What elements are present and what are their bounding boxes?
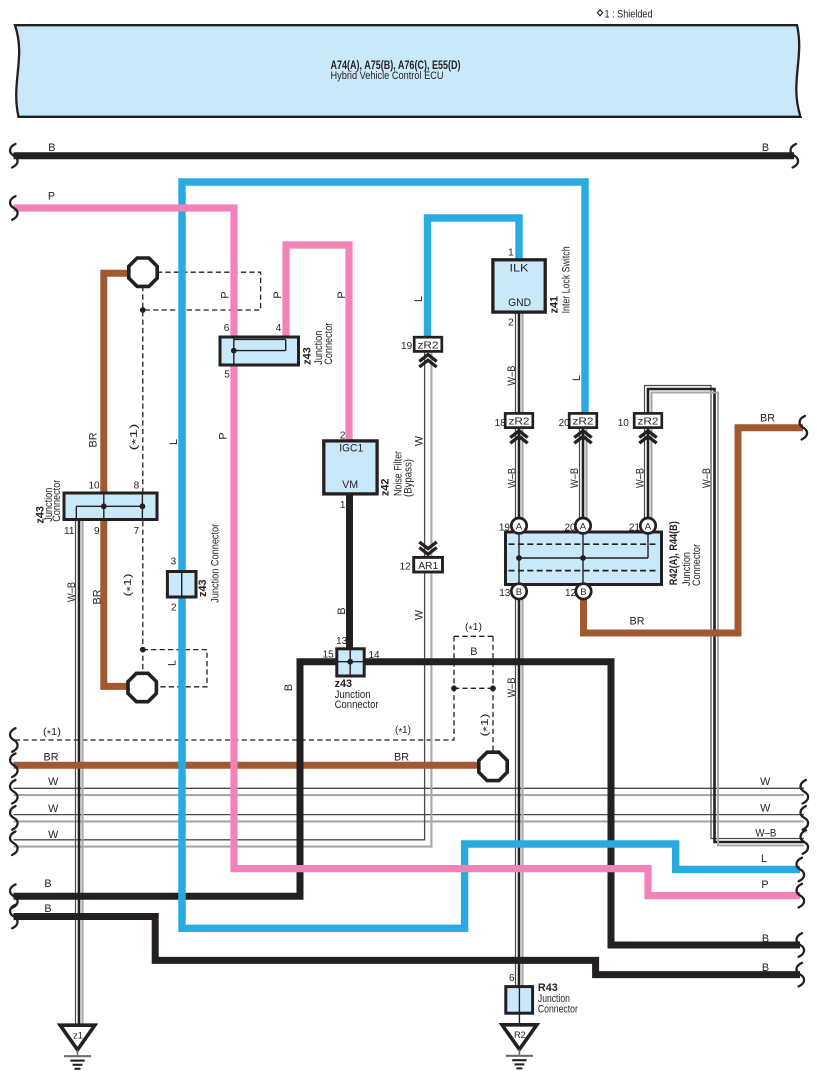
- svg-text:L: L: [413, 296, 425, 302]
- junction inside z43 top: [231, 348, 237, 354]
- svg-text:W: W: [760, 803, 771, 815]
- svg-text:6: 6: [224, 323, 230, 334]
- svg-text:9: 9: [94, 526, 100, 537]
- svg-text:L: L: [571, 375, 583, 381]
- svg-text:(*1): (*1): [129, 424, 142, 451]
- pin 12 B of R44: [576, 584, 591, 599]
- svg-text:A: A: [580, 521, 587, 532]
- svg-text:10: 10: [88, 481, 100, 492]
- svg-text:B: B: [762, 142, 769, 154]
- svg-text:z43: z43: [197, 579, 209, 596]
- break left of wire W row 3: [10, 831, 18, 855]
- svg-text:ILK: ILK: [510, 263, 530, 275]
- break right of wire B top: [791, 144, 799, 168]
- pin 20 A of R42: [575, 518, 590, 533]
- svg-text:Connector: Connector: [323, 322, 335, 364]
- wire W from connector zR2-19 through AR1 noise-filter line to left break: [14, 351, 425, 840]
- shield dashed link from shield octagon S1 (net *1): [143, 272, 261, 310]
- shield chevron under zR2-18: [510, 431, 527, 438]
- svg-text:19: 19: [401, 341, 413, 352]
- junction on shield dashed vertical: [140, 647, 146, 653]
- svg-text:W: W: [48, 829, 59, 841]
- svg-text:z43: z43: [335, 678, 352, 690]
- svg-text:Hybrid Vehicle Control ECU: Hybrid Vehicle Control ECU: [331, 70, 444, 82]
- svg-text:L: L: [761, 853, 767, 865]
- svg-text:BR: BR: [92, 589, 104, 604]
- wire W-B from zR2-10 to R42 pin 21A: [644, 428, 646, 519]
- break left of wire W row 1: [10, 780, 18, 804]
- shield dashed box (*1) top edge: [454, 635, 493, 637]
- shield octagon S2: [128, 673, 156, 701]
- svg-text:(*1): (*1): [395, 725, 411, 738]
- svg-text:(*1): (*1): [123, 574, 136, 597]
- break right of wire P: [797, 884, 805, 908]
- svg-text:BR: BR: [630, 616, 645, 628]
- wire B main bus at top: [14, 152, 795, 159]
- junction inside R42: [516, 555, 522, 561]
- svg-text:(Bypass): (Bypass): [402, 459, 414, 497]
- svg-text:IGC1: IGC1: [339, 443, 363, 455]
- svg-text:B: B: [762, 962, 769, 974]
- shield dashed (*1) right branch to shield octagon S3: [492, 636, 494, 752]
- wire BR from R42 pin 12B to right break: [584, 428, 804, 633]
- connector zR2-18: [505, 413, 533, 427]
- connector zR2-19: [414, 337, 442, 351]
- svg-text:(*1): (*1): [43, 727, 61, 740]
- svg-text:4: 4: [276, 323, 282, 334]
- svg-text:L: L: [166, 660, 178, 666]
- svg-text:Inter Lock Switch: Inter Lock Switch: [561, 246, 573, 313]
- svg-text:zR2: zR2: [573, 417, 594, 428]
- svg-text:W–B: W–B: [506, 366, 518, 386]
- svg-text:1: 1: [508, 248, 514, 259]
- svg-text:A: A: [645, 521, 652, 532]
- svg-text:13: 13: [336, 636, 348, 647]
- break left of wire B bus: [10, 884, 18, 908]
- wire BR row from left break to shield octagon S3: [14, 762, 480, 769]
- break right of wire W-B row: [801, 830, 809, 854]
- break right of wire BR: [800, 416, 808, 440]
- svg-text:P: P: [220, 291, 232, 298]
- svg-text:19: 19: [499, 522, 511, 533]
- junction on shield dashed right branch: [490, 685, 496, 691]
- svg-text:21: 21: [629, 522, 641, 533]
- svg-text:B: B: [44, 878, 51, 890]
- break right of wire B bus: [797, 933, 805, 957]
- svg-text:P: P: [272, 291, 284, 298]
- svg-text:P: P: [761, 879, 768, 891]
- break left of wire P: [10, 196, 18, 220]
- shield chevron under zR2-19: [419, 355, 436, 362]
- svg-text:B: B: [44, 903, 51, 915]
- svg-text:AR1: AR1: [418, 561, 438, 572]
- junction connector z43 (small, on L wire) body: [167, 572, 196, 598]
- svg-text:3: 3: [171, 556, 177, 567]
- shield dashed vertical (*1) to shield octagon S2: [142, 286, 144, 673]
- connector zR2-20: [569, 413, 597, 427]
- svg-text:zR2: zR2: [509, 417, 530, 428]
- svg-text:Connector: Connector: [691, 544, 703, 586]
- svg-text:W: W: [414, 609, 426, 620]
- svg-text:W–B: W–B: [507, 468, 519, 488]
- svg-text:B: B: [516, 587, 522, 598]
- connector AR1 pin 12: [414, 557, 443, 572]
- svg-text:BR: BR: [88, 432, 100, 447]
- junction on shield dashed line: [140, 307, 146, 313]
- svg-text:zR2: zR2: [638, 417, 659, 428]
- wire BR from shield octagon S1 down to shield octagon S2: [104, 273, 130, 686]
- svg-text:Connector: Connector: [538, 1003, 578, 1015]
- shield chevron above AR1: [419, 548, 436, 555]
- svg-text:W–B: W–B: [701, 468, 713, 488]
- svg-text:2: 2: [340, 431, 346, 442]
- break right of wire W row 2: [801, 806, 809, 830]
- wire W-B from z41 ILK GND pin 2 to connector zR2-18: [515, 312, 517, 414]
- pin 13 B of R44: [511, 584, 526, 599]
- shield chevron under zR2-20: [574, 431, 591, 438]
- break left of shield dashed (*1): [10, 728, 18, 752]
- junction connector R43 body: [506, 987, 533, 1014]
- connector zR2-10: [634, 413, 662, 427]
- svg-text:A: A: [516, 521, 523, 532]
- svg-text:W: W: [48, 776, 59, 788]
- ground R2: [502, 1025, 537, 1050]
- svg-text:zR2: zR2: [418, 340, 439, 351]
- break right of wire B lower row: [797, 963, 805, 987]
- svg-text:BR: BR: [760, 412, 775, 424]
- svg-text:1 : Shielded: 1 : Shielded: [605, 8, 653, 20]
- svg-text:Connector: Connector: [335, 699, 379, 711]
- wire P from z43 junction pin 4 to z42 noise filter IGC1 pin 2: [286, 245, 349, 442]
- svg-text:W–B: W–B: [506, 678, 518, 698]
- svg-text:GND: GND: [508, 297, 531, 309]
- svg-text:14: 14: [369, 650, 381, 661]
- svg-text:(*1): (*1): [480, 714, 493, 737]
- svg-text:20: 20: [559, 418, 571, 429]
- svg-text:B: B: [470, 646, 477, 658]
- shield chevron under zR2-10: [639, 431, 656, 438]
- svg-text:B: B: [762, 933, 769, 945]
- shield dashed (*1) left branch to left edge break: [14, 636, 455, 740]
- svg-text:BR: BR: [44, 752, 59, 764]
- wire W-B loop from zR2-10 top to right break: [645, 386, 805, 839]
- wire W-B from R42 pin 13B down to R43 junction connector: [515, 599, 517, 987]
- svg-text:P: P: [336, 291, 348, 298]
- svg-text:20: 20: [564, 522, 576, 533]
- shield octagon S1: [129, 258, 157, 286]
- svg-text:z43: z43: [302, 347, 314, 364]
- svg-text:P: P: [217, 432, 229, 439]
- ECU A74(A), A75(B), A76(C), E55(D) Hybrid Vehicle Control ECU: [15, 25, 801, 117]
- svg-text:BR: BR: [394, 752, 409, 764]
- svg-text:11: 11: [64, 526, 75, 537]
- svg-text:B: B: [48, 142, 55, 154]
- wire W row 2 (left break to right break): [14, 814, 805, 816]
- note *1 Shielded: [597, 10, 602, 16]
- junction inside z43 left 2: [140, 503, 146, 509]
- wire W-B from zR2-20 to R42 pin 20A: [579, 428, 581, 519]
- wire L from connector zR2-19 to z41 ILK pin 1: [428, 218, 520, 337]
- svg-text:W–B: W–B: [635, 468, 647, 488]
- svg-text:Junction Connector: Junction Connector: [210, 523, 222, 602]
- wire L from connector zR2-20 around to right break: [182, 182, 800, 928]
- break left of wire BR row: [10, 753, 18, 777]
- svg-text:7: 7: [134, 526, 140, 537]
- pin 21 A of R42: [640, 518, 655, 533]
- junction inside z43 mid: [347, 659, 353, 665]
- svg-text:18: 18: [495, 418, 507, 429]
- svg-text:W: W: [760, 776, 771, 788]
- svg-text:12: 12: [399, 562, 411, 573]
- pin 19 A of R42: [511, 518, 526, 533]
- junction inside R42 2: [580, 555, 586, 561]
- break left of wire B top: [10, 144, 18, 168]
- svg-text:6: 6: [509, 973, 515, 984]
- shield dashed cross link: [454, 687, 493, 689]
- svg-text:1: 1: [340, 500, 346, 511]
- svg-text:2: 2: [508, 318, 514, 329]
- shield octagon S3: [479, 752, 507, 780]
- svg-text:10: 10: [618, 418, 630, 429]
- svg-text:R42(A), R44(B): R42(A), R44(B): [668, 521, 680, 585]
- svg-text:(*1): (*1): [465, 622, 482, 635]
- svg-text:W–B: W–B: [755, 828, 776, 840]
- wire link R43 to ground R2: [518, 1013, 520, 1025]
- svg-text:R2: R2: [514, 1030, 526, 1040]
- svg-text:z41: z41: [548, 296, 560, 313]
- svg-text:12: 12: [565, 588, 577, 599]
- break right of wire W row 1: [801, 780, 809, 804]
- wire W-B from z43 junction pin 11 down to ground z1: [75, 520, 77, 1026]
- inter lock switch z41 body (ILK/GND): [493, 260, 545, 312]
- wire B lower row left break to right break: [14, 917, 801, 975]
- break left of wire W row 2: [10, 806, 18, 830]
- wire B from z42 noise filter VM pin 1 to z43 junction pin 13: [346, 494, 353, 650]
- svg-text:5: 5: [224, 370, 230, 381]
- break right of wire L: [797, 858, 805, 882]
- svg-text:z42: z42: [379, 479, 391, 496]
- shield dashed loop into octagon S2: [143, 650, 207, 687]
- svg-text:13: 13: [499, 588, 511, 599]
- svg-text:B: B: [580, 587, 586, 598]
- noise filter z42 body (IGC1/VM): [324, 441, 377, 494]
- svg-text:15: 15: [323, 649, 335, 660]
- break left of wire B lower row: [10, 905, 18, 929]
- svg-text:2: 2: [171, 602, 177, 613]
- junction connector z43 (left) body: [64, 493, 157, 520]
- ground z1: [60, 1025, 95, 1050]
- wire B bus through z43 junction pins 15/14 to right break: [14, 662, 801, 945]
- svg-text:W: W: [413, 435, 425, 446]
- wire P from left break through z43 junction pins 6/5 to right break: [14, 208, 801, 896]
- svg-text:z1: z1: [73, 1030, 83, 1040]
- svg-text:W: W: [48, 803, 59, 815]
- junction inside z43 left: [101, 503, 107, 509]
- svg-text:W–B: W–B: [569, 468, 581, 488]
- svg-text:B: B: [336, 607, 348, 614]
- svg-text:B: B: [283, 684, 295, 691]
- svg-text:P: P: [48, 191, 55, 203]
- junction connector R42(A), R44(B) body: [506, 532, 662, 585]
- svg-text:Connector: Connector: [51, 479, 63, 521]
- wire W-B from zR2-18 to R42 pin 19A: [515, 428, 517, 519]
- svg-text:W–B: W–B: [66, 582, 78, 602]
- svg-text:8: 8: [134, 481, 140, 492]
- junction connector z43 (mid, on B wire) body: [337, 649, 364, 676]
- svg-text:L: L: [168, 439, 180, 445]
- junction on shield dashed left branch: [451, 685, 457, 691]
- wire W row 1 (left break to right break): [14, 787, 805, 789]
- junction connector z43 (top) body: [220, 337, 299, 365]
- svg-text:VM: VM: [342, 479, 358, 491]
